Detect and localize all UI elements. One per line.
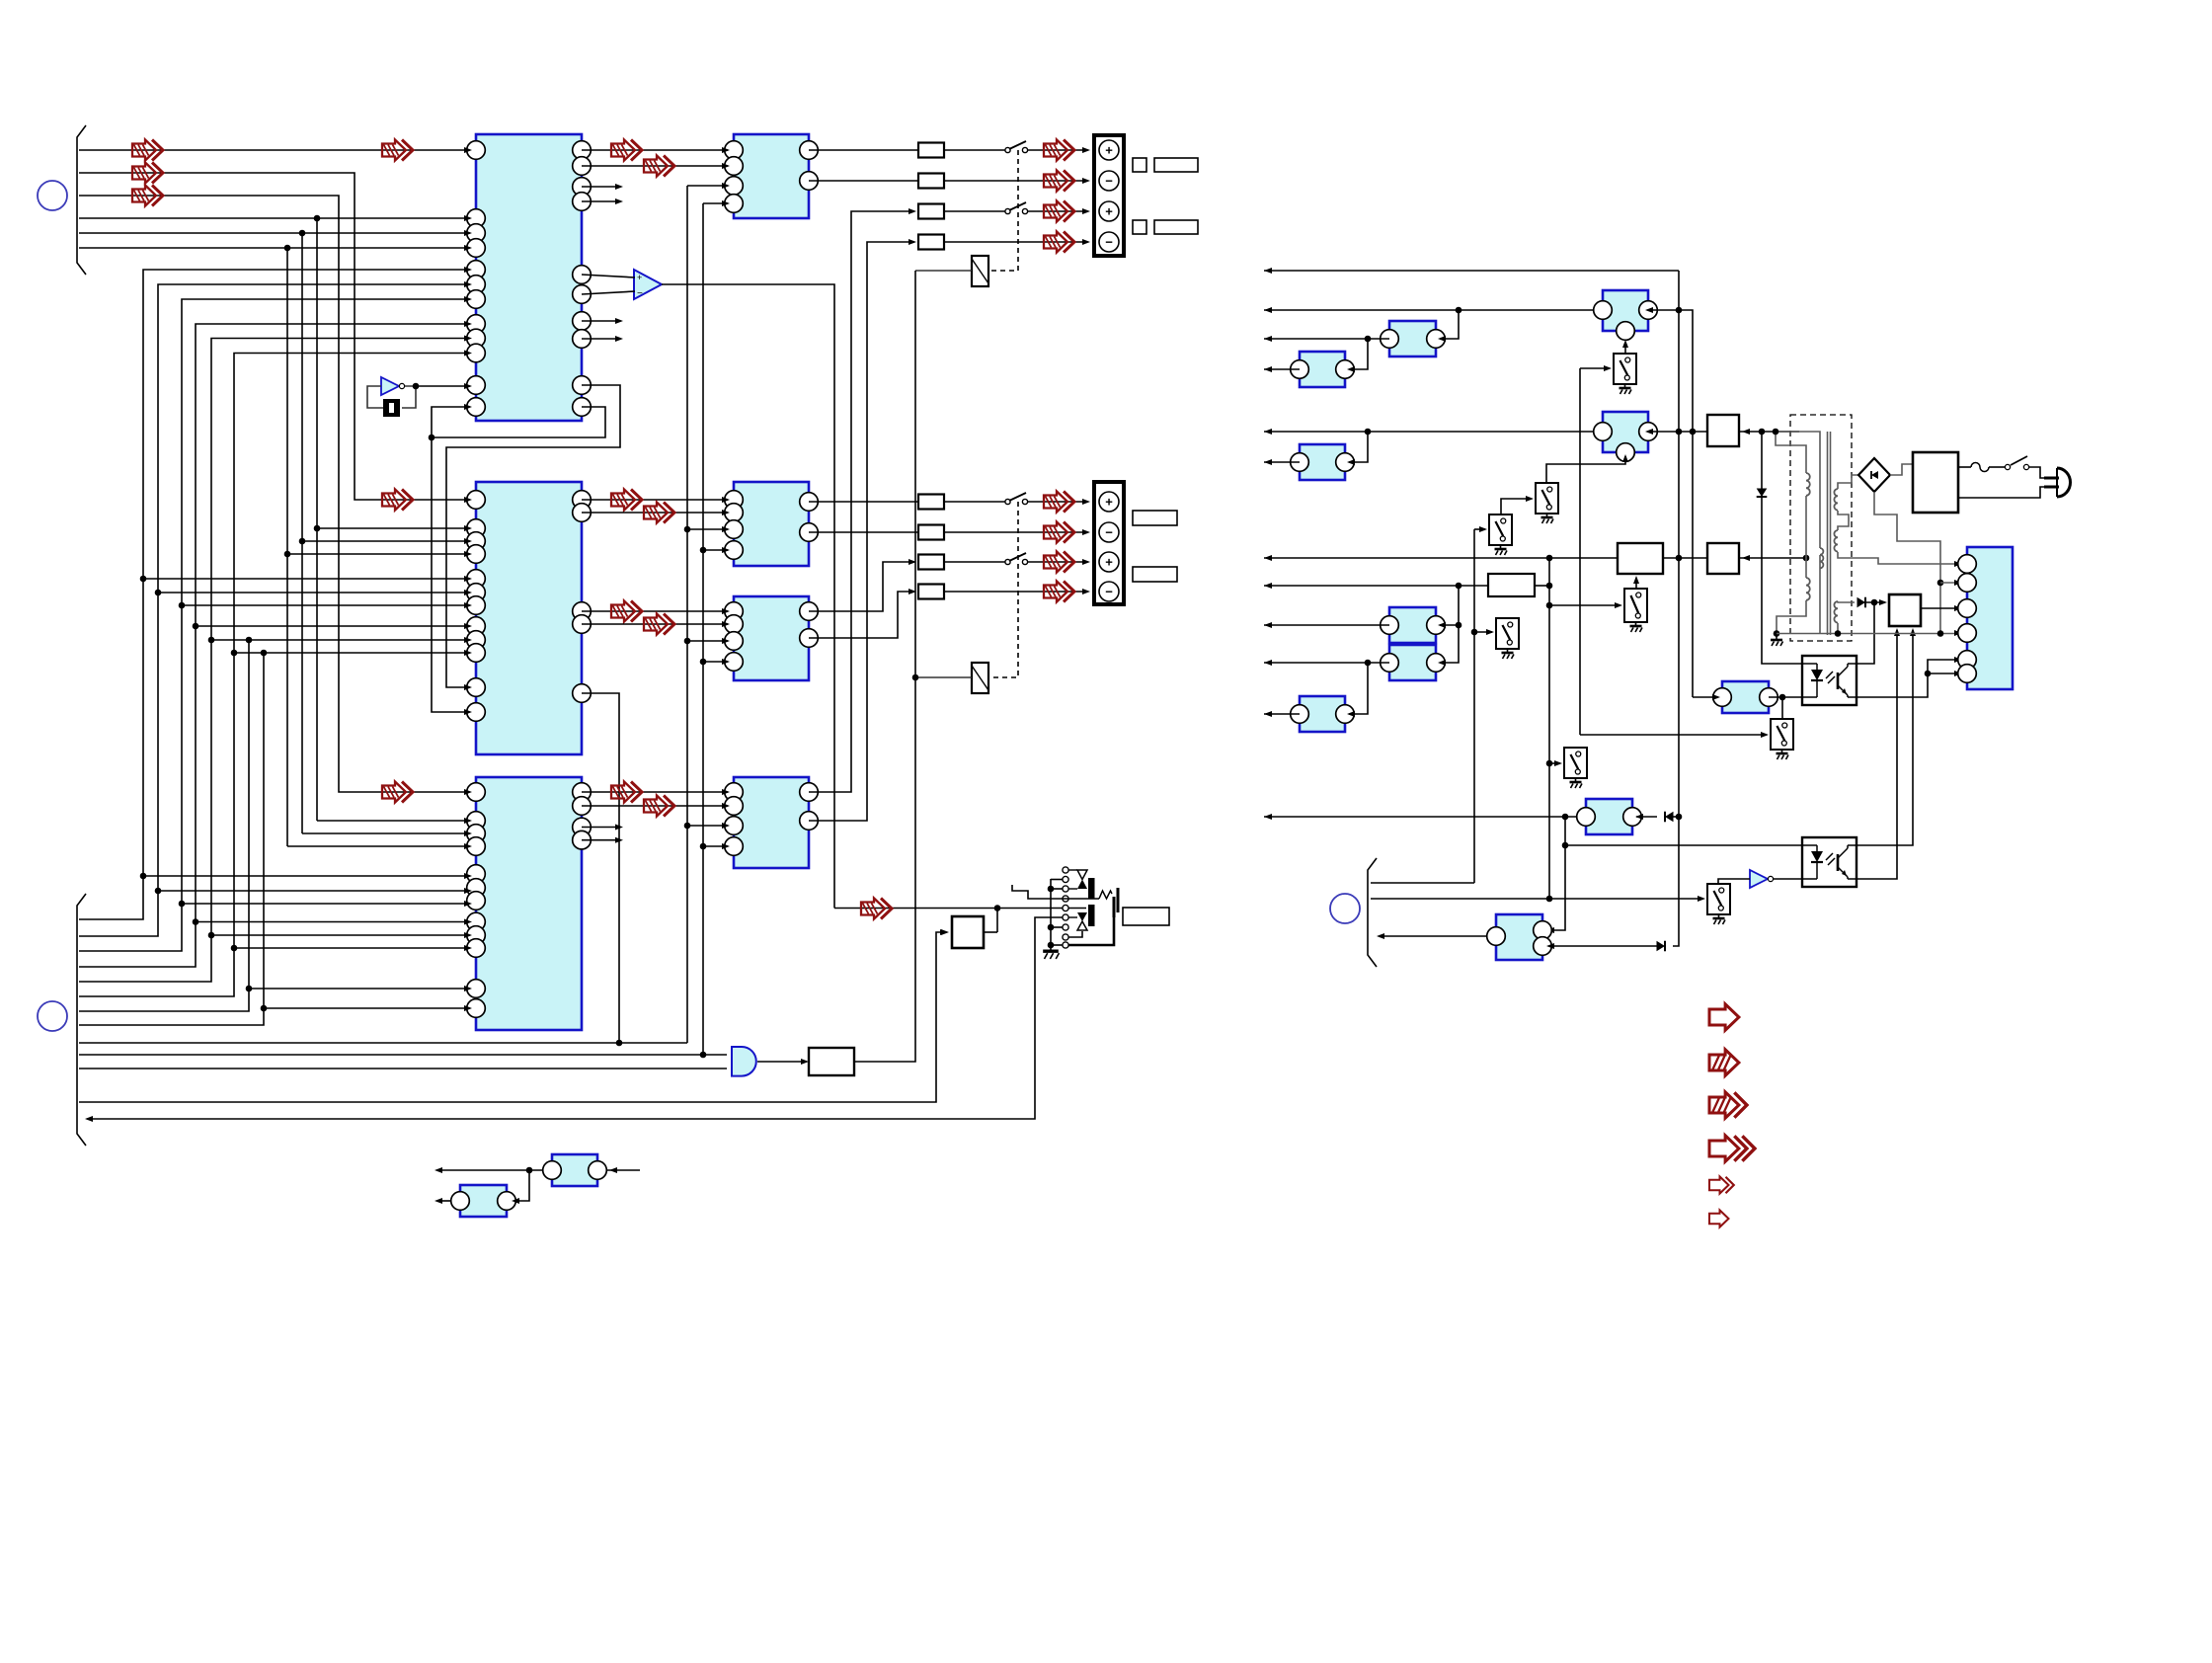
bus arrow [132,140,163,161]
junction [1546,555,1553,562]
arrowhead [1264,307,1272,313]
bus arrow [1044,582,1074,602]
legend arrow type3 [1709,1092,1747,1118]
stub U3 out3 [582,827,619,829]
bus V1700 [1678,271,1680,945]
arrowhead [1742,555,1750,561]
arrowhead [464,623,472,629]
U1 right pin [573,285,592,304]
net R4 [1264,368,1300,370]
power connector CN4 [1967,547,2013,689]
U2 right pin [573,504,592,522]
switch S10 ground [1619,384,1632,394]
wire to plug [2029,467,2045,478]
wire R21 to SW [944,501,1005,503]
U1 left pin [467,315,486,334]
legend arrow type5 [1709,1176,1734,1193]
bus branch to U2 [182,604,466,606]
bus branch to U3 [143,875,466,877]
AC filter box K3 [1707,543,1739,574]
net PC1 collector [1856,602,1874,664]
wire CN2 line12 [79,932,945,1102]
filter FL9 [1586,799,1632,834]
junction [1803,555,1810,562]
arrowhead [1347,711,1355,717]
U2 left pin [467,617,486,636]
arrowhead [464,576,472,582]
arrowhead [1264,814,1272,820]
arrowhead [1712,694,1720,700]
jack contact NC pair [1068,869,1077,871]
arrowhead [1082,529,1090,535]
jack contact [1063,942,1068,948]
terminal screw [1099,171,1119,191]
headphone label [1123,908,1169,925]
net CN3 line1 [1371,882,1474,884]
arrowhead [1879,599,1887,605]
wire SW to T1 row3 [1027,210,1086,212]
net R6 [1264,461,1300,463]
arrowhead [464,296,472,302]
bus branch to U2 [317,527,466,529]
arrowhead [464,637,472,643]
junction [284,245,291,252]
bus V1585 [1550,817,1565,930]
net FL2 in [1440,310,1459,339]
U4 left pin [725,157,744,176]
connector brace CN3 [1368,858,1377,967]
arrowhead [464,267,472,273]
net PC1 emitter [1856,660,1959,697]
jack contact [1063,876,1068,882]
U5 left pin [725,491,744,510]
arrowhead [464,831,472,836]
arrowhead [1082,178,1090,184]
CN4 pin [1958,574,1977,593]
terminal screw [1099,492,1119,512]
buffer X2 [552,1154,597,1186]
bus arrow [1044,492,1074,513]
U2 left pin [467,703,486,722]
FL10 pin R1 [1534,921,1552,940]
junction [684,823,691,830]
arrowhead [512,1198,519,1204]
switch S15 ground [1713,914,1726,924]
wire U2 out1 [582,499,728,501]
connector ref circle CN1 [38,181,67,210]
wire CN2 line10 [79,1054,727,1056]
wire CN1 line3 [79,196,466,792]
arrowhead [1082,559,1090,565]
connector brace CN2 [77,894,86,1146]
connector ref circle CN3 [1330,894,1360,923]
T1 secondary coil A [1834,489,1838,511]
wire CN2 line9 [79,1042,687,1044]
stub U1 out6 [582,338,619,340]
bus branch to U3 [249,988,466,990]
junction [1365,660,1372,667]
junction [193,918,199,925]
arrowhead [464,497,472,503]
wire R14 to T1 row4 [944,241,1086,243]
switch S11 [1536,483,1558,514]
net D4 [1673,816,1679,818]
switch S13 [1496,618,1519,649]
wire U4 out1 to R11 [809,149,918,151]
filter FL8 [1300,696,1345,732]
U3 right pin [573,831,592,849]
arrowhead [1082,147,1090,153]
transformer T1 boundary [1790,415,1852,641]
bus vertical [316,218,318,821]
wire R22 to T2 [944,531,1086,533]
U2 right pin [573,615,592,634]
bridge rectifier BR1 [1858,458,1890,492]
arrowhead [615,318,623,324]
relay box K5 [1618,543,1663,574]
stub U3 out4 [582,839,619,841]
filter FL6 [1389,607,1436,643]
U2 right pin [573,602,592,621]
T1 bottom rail [1777,633,1959,635]
junction [1365,336,1372,343]
wire bus to U5 pin4 [703,549,728,551]
terminal screw [1099,232,1119,252]
net PC2 collector [1856,630,1913,845]
net K4 out [1535,585,1549,587]
junction [1835,630,1842,637]
junction [1456,307,1462,314]
wire CN2 line3 [79,299,466,951]
bus arrow [1044,232,1074,253]
arrowhead [1546,943,1554,949]
arrowhead [1622,340,1628,348]
terminal screw [1099,201,1119,221]
wire K2 up [996,909,998,933]
arrowhead [464,709,472,715]
U1 left pin [467,329,486,348]
diode D5 [1657,941,1666,952]
FL1 pin L [1594,301,1613,320]
U1 left pin [467,224,486,243]
U1 right pin [573,266,592,284]
junction [1773,429,1779,436]
U2 left pin [467,596,486,615]
bus arrow [611,140,642,161]
line filter box K4 [1488,574,1535,596]
wire headphone feed [834,908,1086,910]
U1 left pin [467,290,486,309]
arrowhead [1264,583,1272,589]
bus branch to U3 [264,1007,466,1009]
bus vertical [301,233,303,833]
bus arrow [644,156,674,177]
wire U5 out2 [809,531,918,533]
junction [314,525,321,532]
jack sleeve bar lower [1088,905,1095,926]
wire U1 out2 [582,165,728,167]
U3 left pin [467,999,486,1018]
junction [700,659,707,666]
U3 left pin [467,879,486,898]
bus arrow [132,186,163,206]
optocoupler PC1 [1802,656,1856,705]
crystal loop wire [367,386,383,408]
switch S18 [1564,748,1587,778]
jack contact NO pair [1077,912,1087,921]
wire CN1 line1 [79,149,466,151]
relay RY1 [972,256,988,286]
wire bus to U5 pin3 [687,528,728,530]
terminal screw [1099,552,1119,572]
FL1 pin B [1617,322,1635,341]
wire U1 fb2 [432,407,605,437]
wire V1569 to S18 [1549,762,1560,764]
arrowhead [464,245,472,251]
U5 left pin [725,541,744,560]
jack sleeve L [1068,917,1114,945]
junction [994,905,1001,911]
speaker terminal TB1 [1094,135,1124,256]
U5 right pin [800,523,819,542]
U4 left pin [725,177,744,196]
bus arrow [861,899,892,919]
U2 left pin [467,678,486,697]
rectifier box K8 [1707,415,1739,446]
U2 left pin [467,519,486,538]
junction [700,547,707,554]
arrowhead [722,497,730,503]
U7 right pin [800,783,819,802]
jack contact [1063,867,1068,873]
bus branch to U2 [302,540,466,542]
jack c8 link [1068,931,1082,937]
switch S15 [1707,884,1730,914]
bus branch to U3 [211,934,466,936]
arrowhead [464,321,472,327]
wire X2 in [606,1169,640,1171]
junction [155,888,162,895]
junction [526,1167,533,1174]
arrowhead [722,547,730,553]
net CN3 line2 [1371,898,1703,900]
U5 right pin [800,493,819,512]
U1 right pin [573,141,592,160]
wire V1569 to S14 [1549,604,1620,606]
IC U4 (driver) [734,134,809,218]
U6 left pin [725,602,744,621]
T1 sec tap B [1838,552,1959,564]
U1 right pin [573,157,592,176]
wire CN2 line2 [79,284,466,936]
arrowhead [1264,268,1272,274]
wire bus to U6 pin4 [703,661,728,663]
junction [1779,694,1786,701]
svg-text:−: − [637,288,643,299]
filter FL1 [1603,290,1648,331]
junction [1774,630,1780,637]
arrowhead [722,823,730,829]
wire U1 fb1 [446,385,620,687]
U5 left pin [725,520,744,539]
T1 secondary coil C [1834,601,1838,623]
net X4 in [1718,879,1750,884]
filter FL7 [1389,645,1436,680]
net R8 [1264,585,1488,587]
bus arrow [382,140,413,161]
bus arrow [382,490,413,511]
arrowhead [722,843,730,849]
U6 left pin [725,653,744,672]
legend arrow type6 [1709,1210,1729,1227]
arrowhead [801,1059,809,1065]
U3 left pin [467,825,486,843]
arrowhead [464,888,472,894]
junction [1937,580,1944,587]
wire CN2 line4 [79,324,466,967]
junction [1676,555,1683,562]
junction [179,602,186,609]
jack tip bar A [1113,897,1116,917]
wire bus to U4 pin4 [703,202,728,204]
bus arrow [644,796,674,817]
arrowhead [1082,499,1090,505]
bus V1600 [1579,368,1581,735]
U2 left pin [467,491,486,510]
wire R12 to T1 [944,180,1086,182]
U1 right pin [573,178,592,197]
U1 right pin [573,193,592,211]
wire CN1 line2 [79,173,466,500]
arrowhead [464,789,472,795]
arrowhead [908,208,916,214]
bus arrow [611,601,642,622]
arrowhead [434,1198,442,1204]
wire FL4 to S11 [1546,456,1625,483]
stub U1 out5 [582,320,619,322]
U6 left pin [725,632,744,651]
speaker tag SP2a [1133,220,1146,234]
switch S13 ground [1502,649,1515,659]
junction [1925,671,1932,677]
crystal loop wire2 [402,386,416,408]
bus arrow [611,782,642,803]
wire V1493 to S13 [1474,631,1492,633]
arrowhead [1438,622,1446,628]
wire CN2 line8 [79,653,264,1025]
wire V1600 to S16 [1580,734,1767,736]
wire CN2 line1 [79,270,466,919]
U2 left pin [467,644,486,663]
jack tip wire [1012,885,1099,899]
bus branch to U3 [182,903,466,905]
junction [1456,622,1462,629]
jack rail stub [1051,944,1063,946]
switch S10 [1614,354,1636,384]
bus branch to U3 [158,890,466,892]
net to P2 [1940,582,1959,584]
wire RY1 coil wire [915,270,972,272]
U3 left pin [467,912,486,931]
wire R23 to SW [944,561,1005,563]
legend arrow type1 [1709,1004,1739,1030]
T1 ground [1771,636,1783,646]
U6 right pin [800,629,819,648]
svg-text:+: + [1105,204,1113,219]
terminal screw [1099,140,1119,160]
U3 left pin [467,865,486,884]
arrowhead [615,184,623,190]
arrowhead [464,404,472,410]
net CN4 pin6 stub [1928,673,1959,674]
arrowhead [464,602,472,608]
arrowhead [1438,660,1446,666]
U4 right pin [800,141,819,160]
CN4 pin [1958,599,1977,618]
arrowhead [1622,454,1628,462]
net FL9 in [1636,816,1657,818]
wire AND out [757,1061,805,1063]
junction [1546,602,1553,609]
net FL8 in [1349,663,1368,714]
terminal screw [1099,522,1119,542]
diode D4 [1665,812,1674,823]
arrowhead [722,789,730,795]
U3 right pin [573,818,592,836]
wire SW to T1 [1027,149,1086,151]
arrowhead [1082,208,1090,214]
bus branch to U2 [211,639,466,641]
arrowhead [722,526,730,532]
junction [284,551,291,558]
junction [314,215,321,222]
jack tip bar B [1117,888,1120,912]
arrowhead [722,163,730,169]
junction [179,901,186,908]
wire S10 to FL1 [1624,344,1626,354]
fuse F1 [1971,463,1989,472]
jack contact [1063,896,1068,902]
wire U1 to op-amp + [582,275,635,277]
arrowhead [464,551,472,557]
legend arrow type2 [1709,1050,1739,1075]
arrowhead [1910,628,1916,636]
wire U6 out1 up [809,562,914,611]
bus branch to U3 [234,947,466,949]
stub U1 out4 [582,200,619,202]
FL10 pin R2 [1534,937,1552,956]
wire CN2 line5 [79,339,466,983]
buffer X3 [460,1185,507,1217]
diode D6 [1757,489,1768,498]
wire X3 out [438,1200,451,1202]
optocoupler PC2 [1802,837,1856,887]
power unit box K6 [1913,452,1958,513]
T1 primary wiring [1776,432,1806,473]
junction [1546,896,1553,903]
net FL1 out [1648,310,1693,697]
arrowhead [464,1005,472,1011]
arrowhead [434,1167,442,1173]
arrowhead [1486,629,1494,635]
arrowhead [464,650,472,656]
CN4 pin [1958,665,1977,683]
wire R24 to T2 row4 [944,591,1086,593]
U1 left pin [467,261,486,279]
resistor R22 [918,525,944,540]
U3 left pin [467,892,486,911]
filter FL4 [1603,412,1648,452]
